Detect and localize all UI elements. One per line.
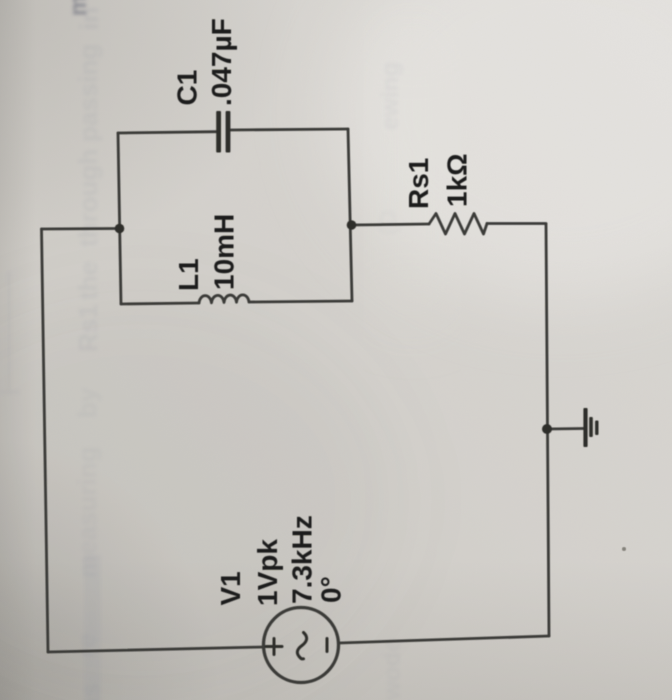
junction node ground — [542, 424, 552, 434]
voltage source V1 circle — [264, 608, 339, 683]
svg-text:wode: wode — [379, 639, 406, 700]
wire right vertical — [546, 224, 549, 636]
capacitor C1 plates — [216, 111, 230, 153]
junction node right — [347, 220, 357, 230]
svg-text:C1: C1 — [172, 70, 203, 106]
svg-text:1Vpk: 1Vpk — [252, 539, 283, 606]
svg-text:7.3kHz: 7.3kHz — [287, 515, 318, 604]
inductor L1 coil bumps — [199, 295, 249, 303]
wire left vertical — [42, 229, 49, 652]
V1 plus sign — [266, 639, 282, 655]
ghost box lines far left — [0, 272, 20, 393]
LC box: bottom edge left segment — [121, 303, 199, 304]
svg-text:10mH: 10mH — [209, 214, 240, 290]
V1 minus sign — [326, 639, 329, 652]
wire left horizontal from loop to LC box — [42, 227, 120, 230]
LC box: bottom edge right segment — [249, 301, 352, 302]
LC box: right edge — [348, 129, 352, 301]
wire bottom source to right corner — [339, 636, 549, 643]
svg-text:.047µF: .047µF — [206, 18, 237, 106]
svg-text:Rs1: Rs1 — [403, 158, 434, 209]
svg-text:V1: V1 — [215, 571, 246, 605]
V1 sine squiggle — [297, 633, 306, 659]
svg-text:as: as — [75, 683, 105, 700]
svg-text:ewing: ewing — [377, 62, 404, 130]
svg-text:through: through — [73, 149, 103, 247]
svg-text:passing: passing — [73, 44, 103, 142]
wire resistor right to corner — [487, 222, 546, 225]
svg-text:1kΩ: 1kΩ — [442, 153, 473, 207]
LC box: top edge left segment — [118, 132, 216, 133]
ground bars — [583, 408, 598, 447]
svg-text:m: m — [65, 0, 92, 16]
LC box: top edge right segment — [231, 129, 349, 130]
wire bottom left to source — [48, 647, 263, 652]
svg-text:L1: L1 — [173, 258, 204, 291]
ghost bleed-through text, left column — [71, 7, 104, 658]
svg-text:by: by — [72, 387, 102, 418]
wire LC box to resistor — [352, 224, 429, 225]
svg-text:Rs1: Rs1 — [73, 304, 103, 352]
svg-text:(D: (D — [375, 210, 402, 235]
junction node left — [115, 224, 125, 234]
ghost bleed-through text, middle column — [375, 62, 406, 700]
svg-text:0°: 0° — [316, 576, 347, 603]
resistor Rs1 zigzag — [429, 214, 487, 235]
ground stem — [547, 427, 583, 430]
LC box: left edge — [118, 133, 121, 304]
svg-text:the: the — [73, 261, 103, 300]
dust speck — [622, 547, 626, 551]
